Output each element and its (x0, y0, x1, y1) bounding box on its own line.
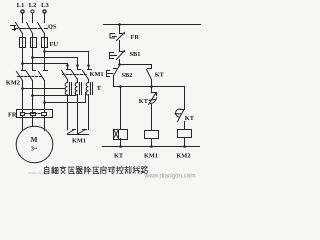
contactor KM1 main contact pole2 (72, 66, 81, 80)
svg-text:SB1: SB1 (130, 51, 141, 58)
autotransformer T winding 3 (86, 80, 92, 96)
coil KM1 (145, 131, 159, 139)
svg-text:KM1: KM1 (90, 71, 104, 78)
wire FR to motor phase1 (22, 119, 24, 131)
relay contact KT delayed (KM1 branch) (149, 93, 157, 105)
node KM1 coil bottom (150, 145, 153, 148)
svg-text:L1: L1 (17, 2, 25, 9)
KM2 linkage dashed line (18, 76, 43, 78)
svg-text:KT: KT (114, 153, 124, 160)
pushbutton SB1 (stop, NC) (110, 51, 125, 60)
wire tap1 to phase1 (23, 88, 65, 90)
wire phase3 FU to KM2 (44, 48, 46, 71)
svg-text:KM1: KM1 (72, 137, 86, 144)
FR heater element 3 (42, 110, 47, 119)
FR NC contact (control) (110, 33, 125, 41)
svg-text:M: M (31, 136, 38, 144)
wire phase2 KM2 to FR (32, 81, 34, 110)
wire phase2 FU to KM2 (32, 48, 34, 71)
node KM1 pole2 top (76, 64, 79, 67)
KM1 linkage dashed line (63, 74, 87, 76)
node L1 terminal (17, 2, 25, 13)
wire bus to KT delayed contact (151, 87, 153, 93)
wire phase3 KM2 to FR (44, 81, 46, 110)
node tee phase3 (43, 50, 46, 53)
svg-text:3~: 3~ (31, 146, 38, 153)
svg-text:KM1: KM1 (144, 153, 158, 160)
node KT coil bottom (119, 145, 122, 148)
relay contact KT delayed (KM2 branch) (175, 109, 185, 122)
coil KT (time relay) (114, 130, 128, 140)
caption 自耦变压器降压启动控制线路 (hand-drawn strokes) (45, 166, 148, 174)
wire SB2 to bus (113, 76, 115, 87)
autotransformer T winding 2 (75, 80, 81, 96)
fuse FU phase 3 (42, 37, 48, 48)
motor M 3~ (16, 126, 53, 163)
control rail top (104, 24, 201, 26)
wire phase1 KM2 to FR (22, 81, 24, 110)
node bus KM1 branch (150, 85, 153, 88)
wire control bus (114, 86, 185, 88)
contactor KM2 main contact pole2 (27, 71, 36, 81)
contactor KM1 main contact pole1 (62, 66, 71, 80)
svg-text:KT: KT (185, 115, 195, 122)
wire KT contact to KM2 coil (184, 122, 186, 130)
wire node A to KT contact (120, 65, 152, 68)
autotransformer T winding 1 (65, 80, 71, 96)
wire phase1 FU to KM2 (22, 48, 24, 71)
node bus KT coil branch (119, 85, 122, 88)
node KM1 pole1 top (66, 64, 69, 67)
wire QS to FU phase1 (22, 34, 24, 37)
wire bus to KT coil (120, 87, 122, 130)
wire winding3 bottom to star contact (88, 95, 90, 130)
FR heater linkage dashes (26, 113, 42, 115)
svg-text:www.diangon: www.diangon (28, 170, 52, 175)
node tap1 junction (21, 87, 24, 90)
svg-text:KT: KT (139, 98, 149, 105)
node control rail junction (118, 23, 121, 26)
wire QS to FU phase3 (44, 34, 46, 37)
svg-text:FU: FU (50, 41, 59, 48)
relay contact KT NO (self-hold) (147, 69, 152, 87)
wire tee1 to KM1 pole1 (23, 64, 68, 66)
switch QS pole 3 (38, 23, 48, 34)
wire KT contact to KM1 coil (151, 105, 153, 131)
fuse FU phase 2 (31, 37, 37, 48)
node A (118, 63, 121, 66)
wire KM2 coil to bottom rail (184, 138, 186, 147)
wire L1 to QS (22, 14, 24, 23)
svg-text:KT: KT (155, 71, 165, 78)
FR heater element 1 (21, 110, 25, 119)
fuse FU phase 1 (20, 37, 26, 48)
node KM1 pole3 top (87, 64, 90, 67)
wire rail to FR contact (119, 25, 121, 34)
wire winding2 bottom to star contact (77, 95, 79, 135)
wire KM1 coil to bottom rail (151, 139, 153, 147)
node L3 terminal (41, 2, 49, 13)
thermal relay FR box (17, 110, 53, 118)
node tee phase2 (31, 56, 34, 59)
svg-text:KM2: KM2 (176, 153, 190, 160)
svg-text:QS: QS (48, 24, 57, 31)
wire tap2 to phase2 (33, 93, 76, 96)
wire tap3 to phase3 (45, 93, 86, 103)
switch QS pole 2 (27, 23, 37, 34)
coil KM2 (178, 130, 192, 138)
wire FR to SB1 (119, 41, 121, 52)
node tee phase1 (21, 62, 24, 65)
wire tee3 to KM1 pole3 (45, 52, 89, 66)
control bottom rail (103, 146, 200, 148)
node KM2 coil bottom (183, 145, 186, 148)
wire FR to motor phase3 (44, 119, 46, 131)
pushbutton SB2 (start, NO) (107, 66, 120, 77)
wire L2 to QS (32, 14, 34, 23)
node tap3 junction (43, 101, 46, 104)
wire bus to KM2 branch (184, 87, 186, 110)
node L2 terminal (29, 2, 37, 13)
contactor KM2 main contact pole3 (39, 71, 48, 81)
svg-text:FR: FR (8, 112, 17, 119)
wire star bar (68, 134, 89, 136)
svg-text:www.diangon.com: www.diangon.com (144, 173, 196, 180)
wire winding1 bottom to star contact (67, 95, 69, 130)
wire FR to motor phase2 (32, 119, 34, 126)
switch QS pole 1 (16, 23, 26, 34)
svg-text:T: T (97, 85, 102, 92)
contactor KM2 main contact pole1 (17, 71, 26, 81)
wire tee2 to KM1 pole2 (33, 58, 78, 66)
QS handle (11, 26, 16, 31)
contactor KM1 star-point contact b (79, 130, 87, 134)
contactor KM1 main contact pole3 (83, 66, 92, 80)
svg-text:KM2: KM2 (6, 80, 20, 87)
wire KT coil to bottom rail (120, 139, 122, 147)
svg-text:L3: L3 (41, 2, 49, 9)
svg-text:L2: L2 (29, 2, 37, 9)
contactor KM1 star-point contact a (68, 130, 76, 134)
FR heater element 2 (31, 110, 36, 119)
svg-text:SB2: SB2 (122, 72, 133, 79)
wire QS to FU phase2 (32, 34, 34, 37)
wire SB1 to node A (119, 60, 121, 65)
wire L3 to QS (44, 14, 46, 23)
QS linkage dashed line (16, 28, 42, 30)
node tap2 junction (31, 94, 34, 97)
svg-text:FR: FR (131, 34, 140, 41)
